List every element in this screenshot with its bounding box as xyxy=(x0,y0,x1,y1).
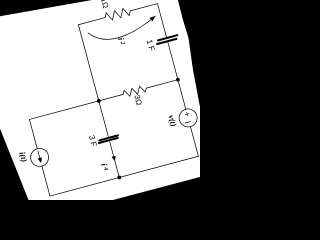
wire: mid rail, middle to 3F cap xyxy=(99,101,108,136)
wire: left rail lower xyxy=(42,166,50,196)
arrowhead i4 on mid rail xyxy=(112,156,117,162)
wire: top-left stub xyxy=(78,18,105,25)
wire: middle left segment xyxy=(29,94,123,119)
node: middle junction xyxy=(96,99,101,104)
node: right middle junction xyxy=(176,77,181,82)
resistor R2 (3 ohm) xyxy=(122,85,147,98)
capacitor C2 (3F) xyxy=(99,135,118,140)
current source I1 circle xyxy=(29,146,51,168)
minus sign xyxy=(185,122,190,123)
wire: mid rail lower with current arrow xyxy=(110,142,120,178)
wire: left rail upper xyxy=(29,119,37,148)
black background xyxy=(0,0,200,200)
wire: right rail, middle to source xyxy=(178,80,186,110)
capacitor C1 (1F) xyxy=(158,35,177,40)
wire: right rail lower xyxy=(190,127,198,157)
wire: bottom xyxy=(50,156,198,196)
wire: mid rail upper (corner to middle wire) xyxy=(78,25,98,101)
current source arrow (points down) xyxy=(38,151,40,159)
white tilted page xyxy=(0,0,217,220)
resistor R1 (top, 1 ohm) xyxy=(104,7,131,22)
wire: right rail upper xyxy=(157,4,166,37)
voltage source V1 circle xyxy=(177,107,199,129)
node: bottom junction xyxy=(117,175,122,180)
wire: right rail to middle xyxy=(168,42,178,79)
wire: top-right xyxy=(130,4,157,11)
curved current arrow i2 xyxy=(88,15,157,45)
wire: middle right segment xyxy=(146,80,178,88)
